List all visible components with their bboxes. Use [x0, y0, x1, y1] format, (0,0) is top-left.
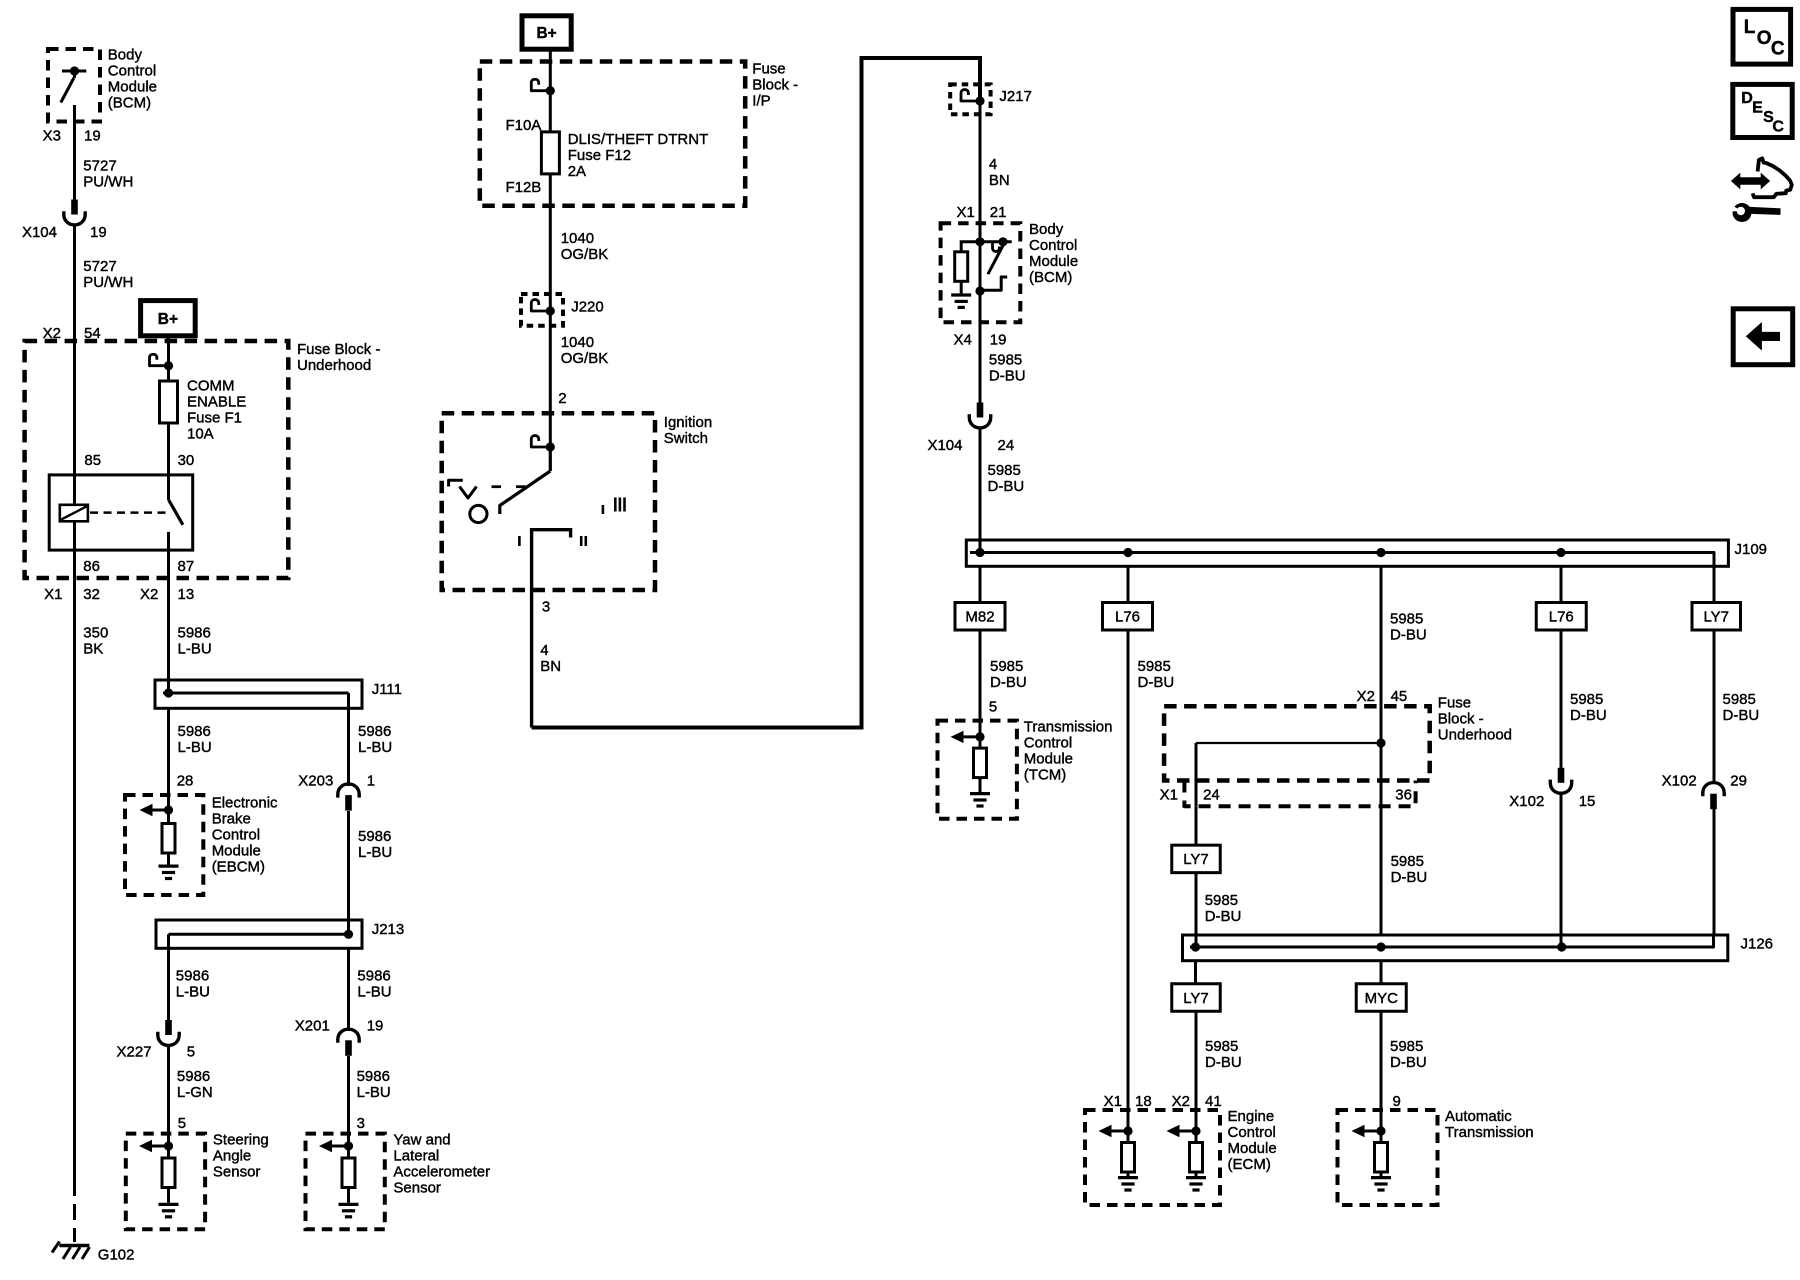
- splice J217: [950, 84, 990, 114]
- svg-text:D: D: [1741, 90, 1753, 107]
- pin labels X1 24 36: [1160, 787, 1412, 804]
- svg-text:5985: 5985: [1205, 892, 1238, 909]
- ECM input arrow pin 41: [1167, 1125, 1201, 1137]
- wire LY7 to J126: [1195, 873, 1198, 948]
- wire label 5985 D-BU (BCM out): [989, 351, 1026, 384]
- net code box L76 (second): [1536, 603, 1586, 631]
- svg-text:86: 86: [83, 558, 100, 575]
- TCM internal ground: [970, 778, 990, 807]
- svg-text:LY7: LY7: [1703, 609, 1729, 626]
- svg-text:Body: Body: [1029, 221, 1064, 238]
- ECM ground pin 41: [1186, 1172, 1206, 1190]
- svg-text:Module: Module: [1029, 253, 1078, 270]
- splice pack J111: [155, 680, 362, 708]
- svg-text:Switch: Switch: [664, 430, 708, 447]
- wire J109 to L76 (first): [1127, 566, 1130, 602]
- svg-text:21: 21: [990, 204, 1007, 221]
- label Fuse Block - Underhood (right): [1438, 695, 1512, 744]
- wire label 5985 D-BU (center branch): [1390, 611, 1427, 644]
- J126 junction taps: [1191, 942, 1566, 951]
- svg-text:5986: 5986: [177, 1068, 210, 1085]
- wire L76 to ECM X1-18: [1127, 630, 1130, 1131]
- svg-text:L-BU: L-BU: [178, 641, 212, 658]
- svg-text:C: C: [1772, 118, 1784, 135]
- svg-text:13: 13: [178, 586, 195, 603]
- svg-text:L: L: [1744, 17, 1756, 38]
- pin labels X2 45: [1357, 688, 1408, 705]
- label Yaw and Lateral Accelerometer Sensor: [393, 1132, 490, 1197]
- wire label 5985 D-BU (second L76): [1570, 691, 1607, 724]
- svg-text:1: 1: [367, 773, 375, 790]
- svg-text:C: C: [1771, 39, 1785, 60]
- svg-text:L-GN: L-GN: [177, 1084, 213, 1101]
- svg-text:D-BU: D-BU: [1390, 1054, 1427, 1071]
- svg-text:87: 87: [178, 558, 195, 575]
- fuse F1 COMM ENABLE 10A: [160, 381, 178, 423]
- svg-text:5986: 5986: [357, 1068, 390, 1085]
- svg-text:1040: 1040: [561, 230, 594, 247]
- wire label 4 BN: [540, 642, 561, 675]
- svg-text:Block -: Block -: [752, 77, 798, 94]
- junction at J111: [164, 688, 173, 697]
- svg-text:X201: X201: [295, 1018, 330, 1035]
- dashed continuation of ground wire: [73, 1180, 76, 1242]
- svg-text:4: 4: [989, 156, 997, 173]
- wire J126 to MYC: [1380, 961, 1383, 983]
- wire label 5727 PU/WH: [83, 158, 133, 191]
- svg-text:Accelerometer: Accelerometer: [393, 1164, 490, 1181]
- svg-text:36: 36: [1395, 787, 1412, 804]
- svg-text:D-BU: D-BU: [1723, 707, 1760, 724]
- module box: Fuse Block - Underhood: [25, 341, 289, 578]
- svg-text:Module: Module: [1024, 751, 1073, 768]
- wire J111 to connector X203: [347, 708, 350, 786]
- in-line connector X102 pin 29: [1703, 783, 1724, 810]
- relay coil: [60, 505, 88, 522]
- net code box LY7 (right): [1692, 603, 1741, 631]
- ignition switch blade: [500, 447, 551, 514]
- svg-text:B+: B+: [536, 25, 556, 42]
- svg-text:Control: Control: [212, 827, 260, 844]
- svg-text:Lateral: Lateral: [393, 1148, 439, 1165]
- wire relay 87 to splice J111: [167, 578, 170, 693]
- pin labels X1 21: [956, 204, 1006, 221]
- labels X102 15: [1509, 793, 1595, 810]
- pin labels X4 19: [953, 332, 1006, 349]
- svg-text:Module: Module: [1228, 1140, 1277, 1157]
- svg-text:5986: 5986: [176, 968, 209, 985]
- steering sensor input arrow: [139, 1140, 173, 1152]
- pin labels X3 19: [43, 128, 101, 145]
- pin labels X1 32 X2 13: [44, 586, 194, 603]
- splice pack J109: [966, 540, 1728, 566]
- wire X104 to splice J109: [979, 429, 982, 553]
- module box: Engine Control Module (ECM): [1085, 1110, 1220, 1205]
- wire label 1040 OG/BK (2): [561, 334, 609, 367]
- svg-text:OG/BK: OG/BK: [561, 246, 609, 263]
- wire label 5985 D-BU (to ECM): [1205, 1038, 1242, 1071]
- wire label 1040 OG/BK: [561, 230, 609, 263]
- svg-text:MYC: MYC: [1365, 990, 1399, 1007]
- module box: Yaw and Lateral Accelerometer Sensor: [306, 1134, 385, 1230]
- in-line connector X104 pin 19: [64, 200, 85, 225]
- svg-text:BK: BK: [83, 641, 103, 658]
- svg-text:J220: J220: [571, 299, 604, 316]
- pin labels 86 87: [83, 558, 194, 575]
- terminal tap in fuse block: [150, 354, 174, 370]
- label Steering Angle Sensor: [213, 1132, 269, 1181]
- terminal tap F10A: [531, 79, 555, 95]
- svg-text:Body: Body: [108, 47, 143, 64]
- svg-text:D-BU: D-BU: [1390, 627, 1427, 644]
- transmission ground: [1371, 1172, 1391, 1190]
- svg-text:D-BU: D-BU: [1570, 707, 1607, 724]
- junction inside fuse block: [1376, 738, 1385, 747]
- TCM input arrow: [951, 731, 985, 743]
- wire L76 second to X102: [1560, 630, 1563, 768]
- position III contact and label: [603, 498, 625, 515]
- wire B+ into fuse block: [167, 336, 170, 381]
- pin labels X2 54: [43, 325, 101, 342]
- svg-text:19: 19: [84, 128, 101, 145]
- svg-text:D-BU: D-BU: [988, 478, 1025, 495]
- svg-text:LY7: LY7: [1183, 851, 1209, 868]
- svg-text:29: 29: [1730, 773, 1747, 790]
- ignition output contact wire: [532, 530, 571, 728]
- labels X104 24: [927, 437, 1014, 454]
- transmission resistor: [1375, 1131, 1388, 1172]
- svg-text:L-BU: L-BU: [357, 1084, 391, 1101]
- svg-text:Control: Control: [108, 63, 156, 80]
- svg-text:G102: G102: [98, 1247, 135, 1264]
- wire J213 to X227: [167, 948, 170, 1020]
- svg-text:L-BU: L-BU: [178, 739, 212, 756]
- ECM resistor pin 18: [1122, 1131, 1135, 1172]
- EBCM input arrow: [140, 804, 174, 816]
- wire X201 to yaw sensor: [347, 1056, 350, 1146]
- svg-text:I/P: I/P: [752, 93, 770, 110]
- wire J213 to X201: [347, 948, 350, 1031]
- svg-text:5: 5: [187, 1044, 195, 1061]
- svg-text:L76: L76: [1115, 609, 1140, 626]
- wire X227 to steering sensor: [167, 1047, 170, 1147]
- svg-text:L-BU: L-BU: [176, 984, 210, 1001]
- svg-text:Module: Module: [212, 843, 261, 860]
- svg-text:19: 19: [367, 1018, 384, 1035]
- in-line connector X227 pin 5: [158, 1020, 179, 1045]
- svg-text:5985: 5985: [1390, 1038, 1423, 1055]
- wire label 5985 D-BU (M82 branch): [990, 658, 1027, 691]
- svg-text:Sensor: Sensor: [213, 1164, 261, 1181]
- svg-text:X203: X203: [298, 773, 333, 790]
- wire LY7 lower to ECM X2-41: [1195, 1013, 1198, 1132]
- svg-text:Fuse F1: Fuse F1: [187, 410, 242, 427]
- svg-text:Fuse Block -: Fuse Block -: [297, 341, 380, 358]
- wire fuse F1 to relay pin 30: [167, 423, 170, 500]
- svg-text:30: 30: [178, 452, 195, 469]
- svg-text:5985: 5985: [1723, 691, 1756, 708]
- wire label 5986 L-BU (to yaw): [357, 1068, 391, 1101]
- svg-text:5985: 5985: [1391, 853, 1424, 870]
- svg-text:D-BU: D-BU: [1138, 674, 1175, 691]
- svg-text:18: 18: [1135, 1093, 1152, 1110]
- svg-text:5986: 5986: [358, 723, 391, 740]
- svg-text:9: 9: [1393, 1093, 1401, 1110]
- label Automatic Transmission: [1445, 1108, 1534, 1141]
- fuse F12 DLIS/THEFT DTRNT 2A: [541, 132, 559, 174]
- svg-text:24: 24: [998, 437, 1015, 454]
- svg-text:(BCM): (BCM): [1029, 269, 1072, 286]
- wire J217 to BCM X1-21: [979, 101, 982, 242]
- wire J220 to ignition switch: [549, 311, 552, 447]
- power feed B+ (left): [141, 301, 196, 336]
- left wire through fuse block into relay coil: [73, 341, 76, 505]
- svg-text:L-BU: L-BU: [357, 984, 391, 1001]
- label Electronic Brake Control Module (EBCM): [212, 795, 278, 876]
- in-line connector X104 pin 24: [969, 403, 990, 428]
- svg-text:B+: B+: [158, 311, 178, 328]
- net code box MYC: [1356, 984, 1406, 1012]
- module box: Body Control Module (BCM) right: [941, 223, 1021, 322]
- svg-text:D-BU: D-BU: [1391, 869, 1428, 886]
- wire M82 to TCM: [979, 630, 982, 737]
- junction at J213: [344, 930, 353, 939]
- svg-text:J217: J217: [999, 88, 1032, 105]
- wire label 5985 D-BU (right LY7): [1723, 691, 1760, 724]
- steering sensor resistor: [162, 1146, 175, 1188]
- svg-text:45: 45: [1391, 688, 1408, 705]
- svg-text:5985: 5985: [990, 658, 1023, 675]
- svg-text:F12B: F12B: [505, 179, 541, 196]
- svg-text:Brake: Brake: [212, 811, 251, 828]
- svg-text:F10A: F10A: [505, 117, 541, 134]
- relay switch blade: [169, 500, 183, 525]
- svg-text:Underhood: Underhood: [297, 357, 371, 374]
- svg-text:X102: X102: [1662, 773, 1697, 790]
- wire label 5727 PU/WH (2): [83, 258, 133, 291]
- module box: Fuse Block - I/P: [480, 62, 745, 206]
- svg-text:Control: Control: [1024, 735, 1072, 752]
- svg-text:(BCM): (BCM): [108, 95, 151, 112]
- ignition dashed detent link: [492, 485, 526, 488]
- wire MYC to automatic transmission: [1380, 1013, 1383, 1132]
- wire label 350 BK: [83, 625, 108, 658]
- wire pin 36 down: [1380, 743, 1383, 935]
- svg-text:5985: 5985: [988, 462, 1021, 479]
- svg-text:Steering: Steering: [213, 1132, 269, 1149]
- wire fuse F12 to J220: [549, 174, 552, 311]
- internal bus wire to pin 24: [1196, 743, 1381, 806]
- svg-text:L-BU: L-BU: [358, 739, 392, 756]
- svg-text:Block -: Block -: [1438, 711, 1484, 728]
- svg-text:Yaw and: Yaw and: [393, 1132, 450, 1149]
- net code box L76 (first): [1103, 603, 1153, 631]
- EBCM internal ground: [159, 853, 179, 879]
- wire pin 24 to LY7: [1195, 806, 1198, 845]
- svg-text:10A: 10A: [187, 426, 214, 443]
- wire 5727 PU/WH below X104: [73, 226, 76, 341]
- svg-text:D-BU: D-BU: [1205, 1054, 1242, 1071]
- svg-text:X102: X102: [1509, 793, 1544, 810]
- wire J109 to M82: [979, 566, 982, 602]
- in-line connector X102 pin 15: [1550, 768, 1571, 793]
- position II contact and label: [581, 536, 586, 546]
- yaw sensor resistor: [342, 1146, 355, 1188]
- chassis ground G102: [52, 1242, 90, 1260]
- relay pin 87 stub: [167, 532, 170, 578]
- svg-text:19: 19: [90, 224, 107, 241]
- svg-text:X2: X2: [140, 586, 158, 603]
- wire label 4 BN (right): [989, 156, 1010, 189]
- svg-text:DLIS/THEFT DTRNT: DLIS/THEFT DTRNT: [568, 131, 709, 148]
- svg-text:(TCM): (TCM): [1024, 767, 1066, 784]
- svg-text:X4: X4: [953, 332, 971, 349]
- svg-text:OG/BK: OG/BK: [561, 350, 609, 367]
- splice J220: [521, 294, 563, 326]
- label Body Control Module (BCM) right: [1029, 221, 1078, 286]
- label Ignition Switch: [664, 414, 712, 447]
- svg-text:ENABLE: ENABLE: [187, 394, 246, 411]
- svg-text:5986: 5986: [178, 625, 211, 642]
- svg-text:2A: 2A: [568, 163, 586, 180]
- svg-text:X1: X1: [1160, 787, 1178, 804]
- label Fuse Block - I/P: [752, 61, 798, 110]
- wire 5727 PU/WH from BCM X3-19: [73, 105, 76, 200]
- svg-text:X1: X1: [956, 204, 974, 221]
- svg-text:M82: M82: [965, 609, 994, 626]
- labels X227 5: [117, 1044, 195, 1061]
- module box: Body Control Module (BCM) upper-left: [48, 49, 100, 122]
- label Transmission Control Module (TCM): [1024, 719, 1113, 784]
- svg-text:24: 24: [1203, 787, 1220, 804]
- splice pack J213: [156, 920, 362, 948]
- svg-text:X1: X1: [44, 586, 62, 603]
- steering sensor ground: [159, 1188, 179, 1217]
- wire label 5986 L-BU (to J111): [178, 625, 212, 658]
- svg-text:5: 5: [178, 1115, 186, 1132]
- module box: Fuse Block - Underhood (right): [1164, 706, 1430, 780]
- svg-text:350: 350: [83, 625, 108, 642]
- wrench icon: [1729, 203, 1781, 222]
- ECM resistor pin 41: [1190, 1131, 1203, 1172]
- ignition switch terminal tap: [531, 436, 555, 452]
- BCM main wire through box: [979, 242, 982, 322]
- wire label 5986 L-BU (J213 to X227): [176, 968, 210, 1001]
- svg-text:BN: BN: [989, 172, 1010, 189]
- wire label 5985 D-BU (to J109): [988, 462, 1025, 495]
- wire J109 to L76 (second): [1560, 566, 1563, 602]
- wire label 5985 D-BU (LY7 branch): [1205, 892, 1242, 925]
- BCM junction at pin 21: [975, 237, 984, 246]
- label Fuse Block - Underhood: [297, 341, 380, 374]
- wire label 5986 L-BU (J213 to X201): [357, 968, 391, 1001]
- in-line connector X201 pin 19: [338, 1029, 359, 1056]
- svg-text:X104: X104: [927, 437, 962, 454]
- ignition OFF contact circle: [470, 505, 487, 522]
- module box: Steering Angle Sensor: [126, 1134, 205, 1230]
- svg-text:J213: J213: [372, 921, 405, 938]
- svg-text:D-BU: D-BU: [990, 674, 1027, 691]
- wire J111 to EBCM pin 28: [167, 708, 170, 810]
- svg-text:COMM: COMM: [187, 378, 235, 395]
- wire LY7 right to X102-29: [1713, 630, 1716, 784]
- wire label 5985 D-BU (to transmission): [1390, 1038, 1427, 1071]
- svg-text:Fuse: Fuse: [1438, 695, 1471, 712]
- svg-text:5727: 5727: [83, 158, 116, 175]
- svg-text:15: 15: [1579, 793, 1596, 810]
- svg-text:3: 3: [542, 599, 550, 616]
- svg-text:J109: J109: [1735, 541, 1768, 558]
- svg-text:85: 85: [84, 452, 101, 469]
- svg-text:5985: 5985: [1390, 611, 1423, 628]
- BCM internal switch contact: [980, 237, 1012, 251]
- labels X203 1: [298, 773, 375, 790]
- BCM internal resistor branch: [955, 242, 980, 294]
- wire label 5985 D-BU (L76 branch): [1138, 658, 1175, 691]
- svg-text:X227: X227: [117, 1044, 152, 1061]
- svg-text:Transmission: Transmission: [1445, 1124, 1534, 1141]
- wire X102-29 to J126: [1713, 809, 1716, 935]
- connector strip X1 of fuse block: [1184, 781, 1415, 807]
- wire B+ into I/P fuse block: [549, 49, 552, 132]
- svg-text:Automatic: Automatic: [1445, 1108, 1512, 1125]
- svg-text:Angle: Angle: [213, 1148, 251, 1165]
- switch inside BCM: [61, 66, 87, 102]
- BCM internal ground: [951, 295, 971, 307]
- J109 junction taps: [975, 548, 1565, 557]
- relay coil to pin 86 wire: [73, 521, 76, 578]
- position I label: [518, 536, 521, 546]
- svg-text:Control: Control: [1029, 237, 1077, 254]
- svg-text:4: 4: [540, 642, 548, 659]
- wire X102-15 to J126: [1560, 795, 1563, 948]
- svg-text:5986: 5986: [357, 968, 390, 985]
- svg-text:J126: J126: [1741, 936, 1774, 953]
- vehicle navigation icon: [1731, 158, 1792, 197]
- relay actuation dashed link: [90, 511, 166, 514]
- labels X201 19: [295, 1018, 384, 1035]
- svg-text:3: 3: [357, 1115, 365, 1132]
- svg-text:5986: 5986: [358, 828, 391, 845]
- svg-text:2: 2: [558, 390, 566, 407]
- svg-text:PU/WH: PU/WH: [83, 174, 133, 191]
- BCM switch blade: [988, 246, 1003, 275]
- label COMM ENABLE Fuse F1 10A: [187, 378, 246, 443]
- wire label 5986 L-BU (left below J111): [178, 723, 212, 756]
- wire BCM X4-19 to X104: [979, 322, 982, 403]
- svg-text:Fuse F12: Fuse F12: [568, 147, 631, 164]
- svg-text:Ignition: Ignition: [664, 414, 712, 431]
- label DLIS/THEFT DTRNT Fuse F12 2A: [568, 131, 709, 180]
- svg-text:1040: 1040: [561, 334, 594, 351]
- label Engine Control Module (ECM): [1228, 1108, 1277, 1173]
- TCM internal resistor: [974, 737, 987, 778]
- transmission input arrow: [1352, 1125, 1386, 1137]
- svg-text:5: 5: [989, 699, 997, 716]
- svg-text:Module: Module: [108, 79, 157, 96]
- svg-text:PU/WH: PU/WH: [83, 274, 133, 291]
- relay R2 COMM ENABLE box: [49, 475, 193, 550]
- module box: Electronic Brake Control Module (EBCM): [125, 795, 203, 895]
- wire label 5986 L-BU (X203 to J213): [358, 828, 392, 861]
- pin labels X1 18 X2 41: [1104, 1093, 1222, 1110]
- wire J109 right end to LY7 (right): [1713, 566, 1716, 602]
- wire X203 to splice J213: [347, 811, 350, 934]
- LOC icon box: [1733, 9, 1791, 64]
- svg-text:Underhood: Underhood: [1438, 727, 1512, 744]
- svg-text:5727: 5727: [83, 258, 116, 275]
- net code box M82: [955, 603, 1005, 631]
